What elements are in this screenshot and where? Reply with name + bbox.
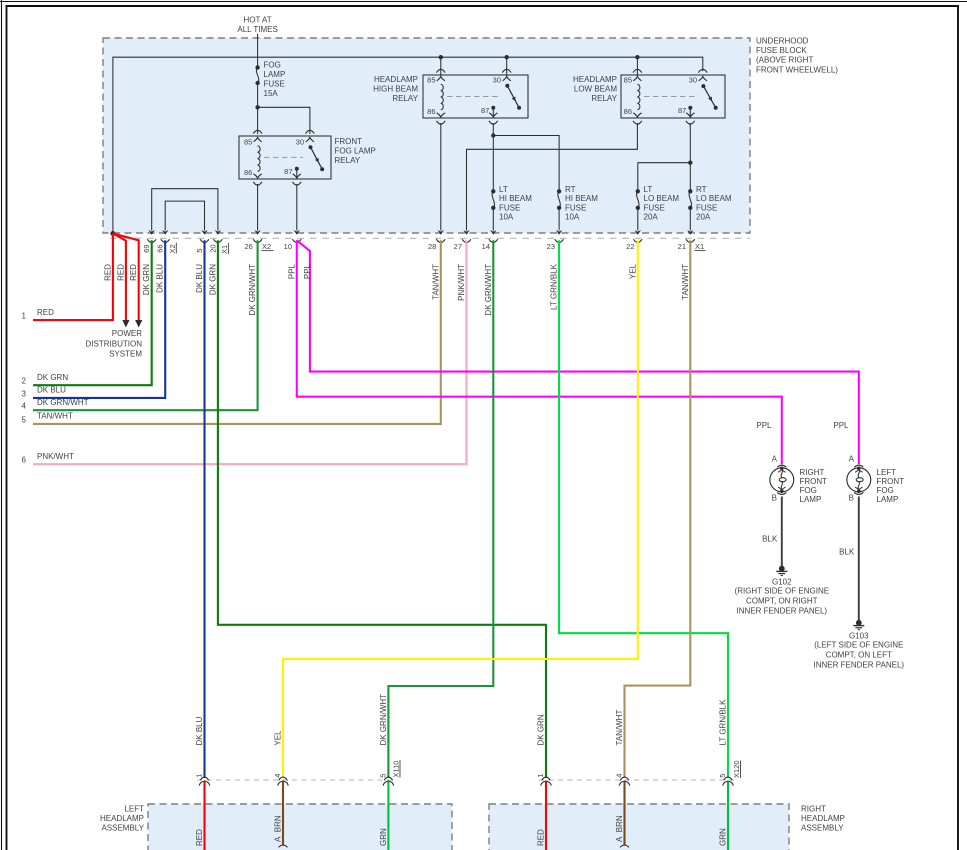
svg-text:FRONT: FRONT: [877, 477, 905, 486]
svg-text:ALL TIMES: ALL TIMES: [237, 25, 277, 34]
svg-text:X1: X1: [220, 245, 229, 254]
svg-text:RT: RT: [696, 185, 707, 194]
svg-text:5: 5: [195, 249, 204, 253]
connector pin at x=257.6: [254, 230, 260, 235]
svg-text:1: 1: [22, 312, 27, 321]
svg-text:LO BEAM: LO BEAM: [696, 194, 732, 203]
wire TAN/WHT pin 21 to X120 pin 4: [625, 240, 691, 778]
connector X110 dashed line: [197, 779, 396, 781]
svg-text:ASSEMBLY: ASSEMBLY: [801, 824, 844, 833]
wire DK BLU pin 5 to X110 pin 1: [203, 240, 205, 778]
svg-text:6: 6: [22, 456, 27, 465]
svg-text:RIGHT: RIGHT: [801, 805, 826, 814]
svg-text:RED: RED: [103, 264, 112, 281]
svg-text:DK GRN: DK GRN: [142, 264, 151, 295]
svg-text:HEADLAMP: HEADLAMP: [100, 814, 144, 823]
svg-text:87: 87: [678, 106, 686, 115]
svg-text:SYSTEM: SYSTEM: [109, 350, 142, 359]
svg-text:INNER FENDER PANEL): INNER FENDER PANEL): [814, 661, 905, 670]
connector pin at x=493.3: [490, 230, 496, 235]
svg-text:YEL: YEL: [628, 263, 637, 279]
svg-text:27: 27: [454, 242, 462, 251]
svg-text:(LEFT SIDE OF ENGINE: (LEFT SIDE OF ENGINE: [814, 641, 903, 650]
svg-text:POWER: POWER: [112, 329, 142, 338]
svg-text:A BRN: A BRN: [615, 815, 624, 842]
svg-text:TAN/WHT: TAN/WHT: [615, 710, 624, 746]
junction: bus to high beam relay 85: [439, 55, 443, 59]
left headlamp assembly label: [100, 805, 145, 833]
wire: bus to low beam relay pins: [636, 57, 638, 76]
svg-text:FRONT WHEELWELL): FRONT WHEELWELL): [756, 65, 838, 74]
svg-text:RED: RED: [37, 308, 54, 317]
svg-text:DK GRN: DK GRN: [208, 264, 217, 295]
connector pin at x=559.1: [556, 230, 562, 235]
svg-text:LEFT: LEFT: [124, 805, 144, 814]
svg-text:10A: 10A: [565, 213, 580, 222]
svg-text:15A: 15A: [264, 89, 279, 98]
svg-text:DK GRN/WHT: DK GRN/WHT: [248, 264, 257, 316]
svg-text:14: 14: [482, 242, 490, 251]
underhood fuse block label: [756, 37, 838, 75]
svg-text:RELAY: RELAY: [591, 94, 617, 103]
svg-text:87: 87: [481, 106, 489, 115]
svg-text:G103: G103: [849, 632, 869, 641]
svg-text:ASSEMBLY: ASSEMBLY: [101, 824, 144, 833]
wire RED to power distribution 2: [113, 234, 139, 321]
svg-text:LO BEAM: LO BEAM: [644, 194, 680, 203]
svg-text:FOG LAMP: FOG LAMP: [335, 147, 376, 156]
svg-text:TAN/WHT: TAN/WHT: [37, 412, 73, 421]
svg-text:86: 86: [244, 168, 252, 177]
svg-text:TAN/WHT: TAN/WHT: [681, 264, 690, 300]
svg-text:COMPT, ON RIGHT: COMPT, ON RIGHT: [746, 596, 818, 605]
svg-text:30: 30: [493, 76, 501, 85]
connector pin at x=637.8: [635, 230, 641, 235]
svg-text:FUSE: FUSE: [565, 203, 586, 212]
svg-text:RED: RED: [537, 829, 546, 846]
svg-text:BLK: BLK: [762, 535, 778, 544]
svg-text:PNK/WHT: PNK/WHT: [457, 264, 466, 301]
svg-text:20: 20: [208, 244, 217, 252]
svg-text:DISTRIBUTION: DISTRIBUTION: [86, 340, 143, 349]
svg-text:FUSE BLOCK: FUSE BLOCK: [756, 46, 807, 55]
relay: HEADLAMP HIGH BEAM RELAY: [373, 69, 528, 124]
svg-text:1: 1: [536, 774, 545, 778]
svg-text:85: 85: [427, 75, 435, 84]
svg-text:DK GRN/WHT: DK GRN/WHT: [37, 398, 89, 407]
svg-text:PPL: PPL: [287, 263, 296, 279]
wire RED to circuit 1: [33, 234, 113, 321]
fuse: RT LO BEAM FUSE 20A: [688, 185, 732, 222]
svg-text:A: A: [772, 454, 778, 463]
connector pin at x=165.2: [162, 230, 168, 235]
svg-text:PPL: PPL: [303, 263, 312, 279]
svg-text:YEL: YEL: [274, 730, 283, 746]
wire YEL pin 22 to X110 pin 4: [283, 240, 638, 778]
svg-text:5: 5: [378, 774, 387, 778]
wire: bus to high beam relay pins: [440, 57, 442, 76]
svg-text:4: 4: [615, 774, 624, 778]
fuse: LT HI BEAM FUSE 10A: [491, 185, 532, 222]
connector pin into headlamp at x=624.5: [620, 777, 629, 780]
junction: bus to high beam relay 30: [505, 55, 509, 59]
relay: FRONT FOG LAMP RELAY: [239, 130, 376, 185]
svg-text:26: 26: [244, 242, 252, 251]
svg-text:20A: 20A: [644, 213, 659, 222]
svg-text:20A: 20A: [696, 213, 711, 222]
svg-text:LT: LT: [499, 185, 508, 194]
svg-text:3: 3: [22, 389, 27, 398]
svg-text:LT: LT: [644, 185, 653, 194]
svg-text:HOT AT: HOT AT: [244, 16, 272, 25]
svg-text:4: 4: [273, 774, 282, 778]
node HOT AT ALL TIMES: [237, 16, 277, 35]
svg-text:X2: X2: [168, 244, 177, 253]
svg-text:PPL: PPL: [833, 421, 849, 430]
svg-text:FRONT: FRONT: [335, 137, 363, 146]
wire: main bus inside fuse block: [113, 57, 703, 233]
svg-text:10A: 10A: [499, 213, 514, 222]
svg-text:DK GRN/WHT: DK GRN/WHT: [379, 694, 388, 746]
svg-text:X1: X1: [695, 242, 704, 251]
svg-text:A BRN: A BRN: [274, 815, 283, 842]
svg-text:66: 66: [156, 244, 165, 252]
connector pin into headlamp at x=283: [279, 777, 288, 780]
wire GRN inside right headlamp: [727, 782, 729, 850]
svg-text:FUSE: FUSE: [499, 203, 520, 212]
svg-text:30: 30: [689, 76, 697, 85]
svg-text:G102: G102: [772, 577, 792, 586]
connector pin at x=217.9: [215, 230, 221, 235]
connector pin into headlamp at x=728: [724, 777, 733, 780]
svg-text:RELAY: RELAY: [335, 156, 361, 165]
svg-text:FUSE: FUSE: [696, 203, 717, 212]
wire A BRN inside right headlamp: [623, 782, 625, 845]
lamp: LEFT FRONT FOG LAMP: [833, 421, 904, 504]
svg-text:HI BEAM: HI BEAM: [565, 194, 598, 203]
connector pin at x=151.7: [149, 230, 155, 235]
svg-text:DK BLU: DK BLU: [156, 264, 165, 293]
svg-text:23: 23: [547, 242, 555, 251]
svg-text:LT GRN/BLK: LT GRN/BLK: [719, 699, 728, 746]
wire: RT HI BEAM fuse to pin 23: [558, 208, 560, 231]
svg-text:1: 1: [195, 774, 204, 778]
svg-text:FOG: FOG: [264, 61, 281, 70]
svg-text:LAMP: LAMP: [877, 495, 899, 504]
svg-text:RED: RED: [129, 264, 138, 281]
wire: fuse to fog relay branch: [257, 83, 259, 134]
svg-text:DK GRN: DK GRN: [37, 373, 68, 382]
svg-text:FUSE: FUSE: [644, 203, 665, 212]
svg-text:DK BLU: DK BLU: [195, 716, 204, 745]
wire: branch to fog relay pin 30: [258, 107, 310, 134]
svg-text:RIGHT: RIGHT: [800, 468, 825, 477]
svg-text:LAMP: LAMP: [264, 70, 286, 79]
underhood fuse block (dashed box): [103, 38, 750, 233]
svg-text:LAMP: LAMP: [800, 495, 822, 504]
ground G103: [814, 620, 905, 670]
wire: branch to LT LO BEAM fuse: [638, 163, 691, 192]
junction: lo beam feed split: [688, 161, 692, 165]
wire PNK/WHT pin 27 to circuit 6: [33, 240, 467, 464]
svg-text:GRN: GRN: [719, 828, 728, 846]
connector pin into headlamp at x=546: [542, 777, 551, 780]
wire BLK from left fog lamp to ground: [858, 497, 860, 621]
wire PPL pin 10 to left fog lamp: [297, 240, 859, 464]
left headlamp assembly box: [148, 804, 452, 850]
junction: bus to low beam relay 85: [635, 55, 639, 59]
wire A BRN inside left headlamp: [282, 782, 284, 845]
wire TAN/WHT pin 28 to circuit 5: [33, 240, 441, 424]
right headlamp assembly box: [489, 804, 789, 850]
svg-text:28: 28: [428, 242, 436, 251]
svg-text:(ABOVE RIGHT: (ABOVE RIGHT: [756, 56, 813, 65]
junction: fog fuse output split: [255, 105, 259, 109]
wire DK GRN pin 69 to circuit 2: [33, 240, 152, 385]
svg-text:DK BLU: DK BLU: [195, 264, 204, 293]
svg-text:FRONT: FRONT: [800, 477, 828, 486]
svg-text:5: 5: [22, 415, 27, 424]
svg-text:85: 85: [624, 75, 632, 84]
wire RED inside right headlamp: [545, 782, 547, 850]
wire RED to power distribution 1: [113, 234, 126, 321]
connector pin at x=440.8: [438, 230, 444, 235]
svg-text:2: 2: [22, 377, 27, 386]
wire: low beam relay 87 to lo beam fuses: [689, 123, 691, 191]
connector pin at x=204.5: [201, 230, 207, 235]
wire: high beam relay 86 to connector pin 28: [440, 123, 442, 231]
wire GRN inside left headlamp: [387, 782, 389, 850]
connector pin at x=296.8: [294, 230, 300, 235]
svg-text:A: A: [849, 454, 855, 463]
svg-text:LEFT: LEFT: [877, 468, 897, 477]
svg-text:HIGH BEAM: HIGH BEAM: [373, 85, 418, 94]
wire: branch to RT HI BEAM fuse: [493, 136, 559, 192]
svg-text:HEADLAMP: HEADLAMP: [573, 75, 617, 84]
svg-text:86: 86: [624, 107, 632, 116]
wire DK BLU pin 66 to circuit 3: [33, 240, 165, 398]
right headlamp assembly label: [801, 805, 845, 833]
svg-text:22: 22: [626, 242, 634, 251]
svg-text:85: 85: [244, 137, 252, 146]
svg-text:69: 69: [142, 244, 151, 252]
svg-text:PNK/WHT: PNK/WHT: [37, 452, 74, 461]
svg-text:RELAY: RELAY: [392, 94, 418, 103]
svg-text:GRN: GRN: [379, 828, 388, 846]
wire: fog relay 86 to connector pin 26: [257, 184, 259, 231]
svg-text:LT GRN/BLK: LT GRN/BLK: [550, 263, 559, 310]
svg-text:FUSE: FUSE: [264, 80, 285, 89]
svg-text:86: 86: [427, 107, 435, 116]
svg-text:B: B: [849, 494, 854, 503]
fuse: LT LO BEAM FUSE 20A: [636, 185, 680, 222]
svg-text:TAN/WHT: TAN/WHT: [431, 264, 440, 300]
wire: fog relay 87 to connector pin 10: [296, 184, 298, 231]
power distribution system label: [86, 329, 143, 359]
secondary connector dashed line below fuse block: [110, 237, 750, 239]
wire PPL pin 10 to right fog lamp: [297, 240, 782, 464]
svg-text:RED: RED: [195, 829, 204, 846]
wire BLK from right fog lamp to ground: [781, 497, 783, 567]
fuse: FOG LAMP FUSE 15A: [255, 61, 285, 99]
wire: jumper pin 69 to pin 20: [152, 189, 218, 231]
svg-text:RED: RED: [116, 264, 125, 281]
wire: LT LO BEAM fuse to pin 22: [637, 208, 639, 231]
svg-text:DK GRN/WHT: DK GRN/WHT: [484, 264, 493, 316]
svg-text:5: 5: [718, 774, 727, 778]
relay: HEADLAMP LOW BEAM RELAY: [573, 69, 725, 124]
svg-text:21: 21: [678, 242, 686, 251]
svg-text:PPL: PPL: [756, 421, 772, 430]
wire DK GRN/WHT pin 26 to circuit 4: [33, 240, 258, 410]
svg-text:HEADLAMP: HEADLAMP: [374, 75, 418, 84]
ground G102: [735, 566, 830, 616]
svg-text:X2: X2: [262, 242, 271, 251]
svg-text:DK BLU: DK BLU: [37, 386, 66, 395]
svg-text:BLK: BLK: [839, 548, 855, 557]
svg-text:FOG: FOG: [800, 486, 817, 495]
svg-text:FOG: FOG: [877, 486, 894, 495]
svg-text:HI BEAM: HI BEAM: [499, 194, 532, 203]
svg-text:10: 10: [284, 242, 292, 251]
wire RED inside left headlamp: [203, 782, 205, 850]
wire LT GRN/BLK pin 23 to X120 pin 5: [559, 240, 728, 778]
connector pin into headlamp at x=204.5: [200, 777, 209, 780]
connector pin at x=690.3: [687, 230, 693, 235]
svg-text:X120: X120: [732, 760, 741, 778]
svg-text:87: 87: [284, 167, 292, 176]
wire: RT LO BEAM fuse to pin 21: [689, 208, 691, 231]
svg-text:DK GRN: DK GRN: [537, 714, 546, 745]
svg-text:30: 30: [296, 137, 304, 146]
wire: high beam relay 87 to hi beam fuses: [492, 123, 494, 191]
wire: jumper pin 66 to pin 5: [165, 201, 204, 230]
svg-text:LOW BEAM: LOW BEAM: [574, 85, 617, 94]
svg-text:B: B: [772, 494, 777, 503]
wire: battery feed from HOT AT ALL TIMES down to fuse: [257, 34, 259, 68]
svg-text:INNER FENDER PANEL): INNER FENDER PANEL): [737, 606, 828, 615]
junction: battery feed node: [110, 231, 115, 236]
lamp: RIGHT FRONT FOG LAMP: [756, 421, 827, 504]
connector X120 dashed line: [539, 779, 737, 781]
svg-text:UNDERHOOD: UNDERHOOD: [756, 37, 809, 46]
fuse: RT HI BEAM FUSE 10A: [557, 185, 598, 222]
svg-text:(RIGHT SIDE OF ENGINE: (RIGHT SIDE OF ENGINE: [735, 587, 830, 596]
svg-text:4: 4: [22, 402, 27, 411]
wire: low beam relay 86 to connector pin 27: [467, 123, 638, 231]
svg-text:RT: RT: [565, 185, 576, 194]
svg-text:COMPT, ON LEFT: COMPT, ON LEFT: [826, 651, 892, 660]
junction: hi beam feed split: [491, 133, 495, 137]
connector pin into headlamp at x=388.4: [384, 777, 393, 780]
connector pin at x=466.5: [463, 230, 469, 235]
svg-text:X110: X110: [392, 761, 401, 778]
wire DK GRN pin 20 to X120 pin 1: [218, 240, 546, 778]
svg-text:HEADLAMP: HEADLAMP: [801, 814, 845, 823]
wire: LT HI BEAM fuse to pin 14: [492, 208, 494, 231]
wire DK GRN/WHT pin 14 to X110 pin 5: [388, 240, 493, 778]
